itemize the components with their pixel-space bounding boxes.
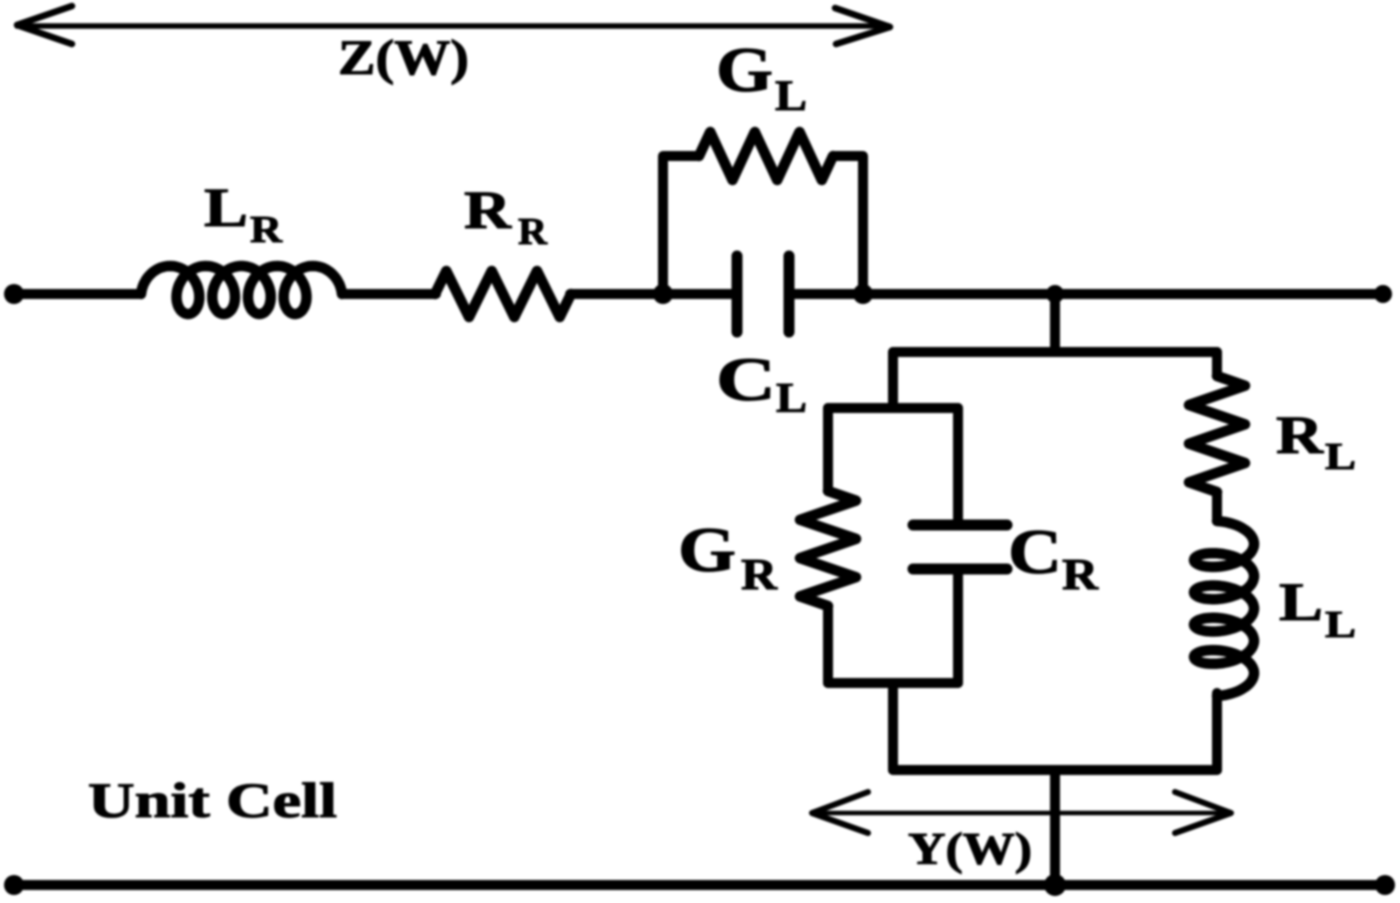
conductance G_R zigzag: [800, 491, 856, 606]
resistor R_R: [435, 271, 571, 317]
svg-text:R: R: [464, 180, 512, 240]
wire inner box top: [828, 403, 958, 413]
wire below inner box: [888, 683, 898, 770]
conductance G_L branch left frame: [663, 156, 699, 294]
capacitor C_L plates: [737, 256, 789, 332]
wire inner right lower: [953, 573, 963, 683]
svg-text:L: L: [775, 73, 807, 120]
wire right branch bottom: [1212, 693, 1222, 770]
wire: [570, 289, 733, 299]
bottom rail: [14, 880, 1385, 890]
node shunt tap: [1046, 285, 1064, 303]
svg-text:R: R: [1062, 550, 1099, 599]
svg-text:R: R: [741, 550, 778, 599]
svg-text:G: G: [678, 514, 736, 585]
svg-text:L: L: [1325, 436, 1356, 478]
svg-text:R: R: [250, 209, 283, 251]
wire top-left segment: [14, 289, 141, 299]
svg-text:G: G: [716, 34, 773, 105]
wire inner left lower: [823, 606, 833, 683]
svg-text:C: C: [716, 347, 776, 414]
inductor L_R: [141, 266, 342, 314]
svg-text:Z(W): Z(W): [338, 29, 469, 85]
inductor L_L: [1194, 521, 1254, 696]
terminal dot top-left: [4, 284, 24, 304]
svg-text:Y(W): Y(W): [908, 824, 1032, 874]
svg-text:L: L: [776, 376, 807, 422]
terminal dot bottom-left: [4, 875, 24, 895]
svg-text:R: R: [1276, 405, 1324, 465]
node bottom junction: [1044, 874, 1066, 896]
svg-text:L: L: [1325, 604, 1356, 646]
wire shunt box top: [893, 347, 1217, 357]
wire inner left upper: [823, 408, 833, 491]
wire right branch top: [1212, 352, 1222, 376]
wire left drop to inner box: [888, 352, 898, 408]
terminal dot bottom-right: [1375, 875, 1395, 895]
Z(W) measurement arrow: [17, 6, 890, 44]
node junction left of C_L: [653, 284, 673, 304]
svg-text:L: L: [204, 177, 248, 238]
wire: [342, 289, 436, 299]
svg-text:L: L: [1279, 572, 1323, 632]
wire between R_L and L_L: [1212, 492, 1222, 519]
svg-text:C: C: [1008, 516, 1062, 587]
wire to right terminal: [793, 289, 1383, 299]
terminal dot top-right: [1374, 285, 1392, 303]
conductance G_L branch right frame: [833, 156, 863, 294]
conductance G_L zigzag: [699, 132, 833, 180]
capacitor C_R plates: [913, 525, 1007, 569]
node junction right of C_L: [853, 284, 873, 304]
wire center bottom stub: [1050, 770, 1060, 885]
wire shunt box bottom: [893, 765, 1217, 775]
resistor R_L zigzag: [1189, 376, 1245, 492]
wire shunt stub: [1050, 294, 1060, 352]
Y(W) measurement arrow: [812, 792, 1231, 833]
svg-text:Unit Cell: Unit Cell: [88, 772, 337, 828]
svg-text:R: R: [518, 211, 548, 253]
wire inner box bottom: [828, 678, 958, 688]
wire inner right upper: [953, 408, 963, 521]
